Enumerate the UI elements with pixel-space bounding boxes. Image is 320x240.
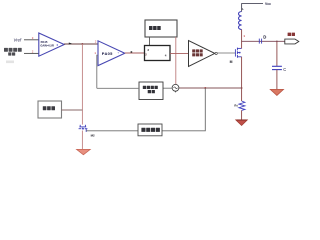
svg-text:Rs: Rs (234, 103, 238, 107)
wire junction down (162, 88, 205, 131)
svg-text:C: C (283, 67, 286, 72)
transistor M1 (235, 48, 241, 58)
wire input-signal to U1 (24, 52, 39, 54)
box calibrate (38, 101, 62, 118)
wire inductor bottom (241, 30, 243, 42)
svg-text:D: D (263, 34, 266, 39)
wire Vref to U1 (24, 39, 39, 41)
op-amp U1 (39, 33, 64, 56)
svg-text:Vref: Vref (14, 37, 22, 42)
op-amp U2 (98, 41, 125, 66)
node junction A (81, 43, 83, 45)
box sampling resistor (138, 124, 162, 136)
wire drain up (241, 41, 243, 48)
svg-text:M: M (230, 60, 233, 64)
wire output node D (242, 40, 285, 42)
wire coil right lead down (175, 37, 177, 85)
wire switch to U3 (170, 52, 189, 54)
wire U1 output (64, 43, 98, 45)
wire box1 to circle (163, 87, 172, 89)
box current sampling circuit (139, 82, 163, 100)
pin 6 mark (131, 51, 133, 53)
wire coil to switch (149, 37, 151, 46)
meter circle (172, 84, 179, 91)
node junction cap (276, 41, 278, 43)
wire U2 inverting input (97, 55, 98, 88)
wire M2 source down (81, 131, 83, 150)
node junction F (204, 87, 206, 89)
svg-text:GAIN=0.5R: GAIN=0.5R (40, 44, 54, 48)
inductor L (239, 12, 242, 30)
svg-text:Vcc: Vcc (265, 2, 271, 6)
wire M2 gate out (86, 130, 138, 132)
port load tag (285, 39, 299, 44)
ground under Rs (236, 120, 248, 126)
wire feedback vertical (81, 44, 83, 125)
relay switch S1 (145, 46, 171, 61)
svg-text:L: L (242, 7, 244, 11)
svg-text:PA05: PA05 (102, 51, 113, 56)
relay coil box K1 (145, 20, 177, 37)
node U3 output bubble (215, 52, 217, 54)
node output arrow mark (69, 43, 72, 45)
ground under C (270, 89, 283, 95)
wire source down (241, 57, 243, 101)
wire U3 to gate (217, 52, 235, 54)
resistor Rs (239, 101, 245, 110)
transistor M2 (79, 125, 88, 132)
node input-signal label (4, 48, 22, 63)
wire Vcc (242, 4, 263, 12)
amp U3 drive circuit (189, 41, 215, 67)
wire U2 output (125, 52, 145, 54)
svg-text:PA45: PA45 (41, 40, 48, 44)
wire calibrate to vertical (62, 109, 83, 111)
capacitor C (276, 41, 278, 66)
svg-text:M2: M2 (91, 133, 95, 137)
ground under M2 (77, 149, 91, 154)
node junction S (241, 87, 243, 89)
wire U2 inv to box1 (97, 87, 139, 89)
wire feedback horizontal (179, 87, 242, 89)
